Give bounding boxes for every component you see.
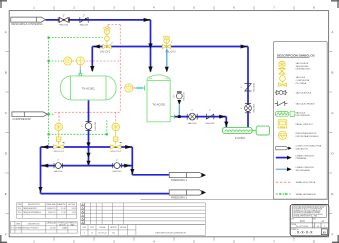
svg-text:APROB: APROB bbox=[110, 226, 117, 229]
svg-text:GDU-CV-1: GDU-CV-1 bbox=[54, 151, 65, 153]
svg-text:CAPACIDAD: CAPACIDAD bbox=[46, 221, 57, 224]
svg-text:DESCARGA CISTERNA: DESCARGA CISTERNA bbox=[11, 22, 43, 26]
valve HA-0102 bbox=[54, 163, 63, 169]
valve HA-0103 bbox=[113, 163, 122, 169]
svg-text:2": 2" bbox=[116, 159, 118, 161]
svg-text:CAL-CV-2: CAL-CV-2 bbox=[100, 50, 111, 53]
corner mark top-right bbox=[331, 0, 339, 8]
tank TK-AC003 (vertical vessel) bbox=[147, 75, 170, 122]
svg-text:HA-0106: HA-0106 bbox=[188, 122, 197, 125]
corner mark top-left bbox=[0, 0, 7, 8]
legend: ball valve symbol bbox=[275, 91, 287, 95]
svg-text:SEÑAL ELECTRICA: SEÑAL ELECTRICA bbox=[296, 181, 316, 184]
svg-text:HA-0115: HA-0115 bbox=[80, 24, 89, 27]
svg-text:HA-0108: HA-0108 bbox=[253, 82, 256, 91]
title block paragraph bbox=[294, 206, 326, 218]
legend: piloted gate valve symbol bbox=[278, 76, 286, 87]
svg-text:HA-0104: HA-0104 bbox=[182, 92, 185, 101]
svg-text:DESCRIPCIÓN: DESCRIPCIÓN bbox=[28, 203, 41, 206]
primary line: supply header y165.6 bbox=[41, 165, 133, 167]
svg-text:DISCRETA ACCESIBLE: DISCRETA ACCESIBLE bbox=[296, 135, 320, 138]
legend: connector other location symbol bbox=[276, 147, 289, 150]
primary line: TK-AC002 bottom outlet bbox=[88, 100, 90, 166]
svg-text:ACN: ACN bbox=[300, 220, 305, 223]
pneumatic signal: green dashed network bbox=[49, 38, 107, 148]
connector flag FREIDORA 2 bbox=[169, 190, 203, 195]
instrument PI above TK-AC002 bbox=[64, 57, 72, 65]
svg-text:DIAMETRO: DIAMETRO bbox=[57, 203, 67, 206]
svg-text:COMPRESOR: COMPRESOR bbox=[12, 117, 30, 121]
svg-text:TK-AC002: TK-AC002 bbox=[82, 86, 95, 90]
svg-text:DESCRIPCIÓN DE LA REVISIÓN: DESCRIPCIÓN DE LA REVISIÓN bbox=[155, 232, 186, 235]
corner mark bottom-right bbox=[332, 235, 339, 243]
svg-text:24-OCT-2024: 24-OCT-2024 bbox=[296, 226, 309, 228]
primary line: top feed from cisterna bbox=[45, 20, 150, 72]
svg-text:ITEM: ITEM bbox=[16, 223, 21, 225]
legend: electric signal symbol bbox=[276, 181, 291, 183]
svg-text:1/2": 1/2" bbox=[174, 94, 176, 98]
svg-text:5,5 KW: 5,5 KW bbox=[50, 228, 56, 230]
legend: panel view PLC symbol bbox=[278, 120, 287, 128]
svg-text:HA-0103: HA-0103 bbox=[113, 170, 122, 173]
svg-text:JT: JT bbox=[91, 232, 93, 234]
valve HA-0101 on TK-AC002 outlet bbox=[85, 122, 92, 131]
svg-text:1,5 M: 1,5 M bbox=[72, 212, 77, 214]
right ruler ticks bbox=[329, 52, 333, 214]
svg-text:PROGRESIVA: PROGRESIVA bbox=[296, 114, 311, 117]
instrument stack HA-0104 at TK-AC003 outlet bbox=[176, 91, 182, 99]
primary line: left riser to freidora 2 bbox=[41, 147, 170, 194]
check valve HA-0108 on riser bbox=[245, 84, 252, 91]
svg-text:2": 2" bbox=[191, 110, 193, 112]
legend: secondary connection line symbol bbox=[276, 168, 288, 170]
svg-text:VALVULA BOLA: VALVULA BOLA bbox=[296, 92, 312, 95]
svg-text:P-AC001: P-AC001 bbox=[235, 137, 246, 140]
svg-text:TK-2: TK-2 bbox=[18, 212, 22, 214]
connector flag DESCARGA CISTERNA bbox=[11, 17, 46, 22]
legend: progressive pump symbol bbox=[275, 111, 294, 116]
corner mark bottom-left bbox=[0, 235, 7, 243]
legend: primary connection line symbol bbox=[276, 157, 288, 159]
svg-text:VALVULA DE: VALVULA DE bbox=[296, 62, 309, 65]
svg-text:2": 2" bbox=[209, 110, 211, 112]
pilot gate valve CAL-CV-1 bbox=[162, 36, 170, 49]
tank TK-AC002 (horizontal vessel) bbox=[60, 76, 116, 100]
arrow at top corner bbox=[144, 18, 151, 22]
secondary line: level instrument into TK-AC003 bbox=[133, 87, 137, 89]
svg-text:BOMBA DESPLAZ. POSITIVO: BOMBA DESPLAZ. POSITIVO bbox=[15, 227, 39, 230]
svg-text:INSTRUMENTACIÓN: INSTRUMENTACIÓN bbox=[296, 132, 317, 135]
svg-text:TANQUE INTERMEDIO: TANQUE INTERMEDIO bbox=[23, 211, 42, 214]
connector flag FREIDORA 1 bbox=[169, 173, 203, 178]
arrow into TK-AC003 top bbox=[148, 67, 152, 73]
svg-text:0: 0 bbox=[84, 232, 85, 234]
connector flag COMPRESOR bbox=[12, 112, 48, 117]
svg-text:2,000 LTS: 2,000 LTS bbox=[48, 212, 57, 214]
secondary line: CAL-CV-1 drop into TK-AC003 bbox=[166, 49, 168, 72]
svg-text:ALTURA: ALTURA bbox=[68, 203, 75, 206]
instrument LT at TK-AC003 bbox=[125, 84, 133, 92]
legend: safety diverting valve symbol bbox=[279, 61, 285, 74]
svg-text:A: A bbox=[331, 30, 333, 34]
svg-text:2": 2" bbox=[82, 125, 84, 127]
svg-text:PANEL VIEW PLC: PANEL VIEW PLC bbox=[296, 123, 314, 126]
svg-text:3,5 M: 3,5 M bbox=[72, 208, 77, 210]
svg-text:UBICACIÓN: UBICACIÓN bbox=[296, 147, 308, 150]
svg-text:CONECTOR LINEA OTRA: CONECTOR LINEA OTRA bbox=[296, 145, 322, 148]
equipment table (tanks) bbox=[17, 203, 77, 219]
svg-text:F: F bbox=[5, 233, 7, 237]
svg-text:VALVULA CHEQUE: VALVULA CHEQUE bbox=[296, 103, 316, 106]
legend: check valve symbol bbox=[275, 101, 288, 106]
electric signal: red dashed network bbox=[55, 25, 123, 123]
bottom ruler ticks bbox=[54, 237, 294, 241]
title block bbox=[290, 205, 329, 236]
svg-text:A: A bbox=[5, 30, 7, 34]
svg-text:COMPUERTA: COMPUERTA bbox=[296, 79, 310, 82]
svg-text:TANQUE ACEITE: TANQUE ACEITE bbox=[23, 207, 37, 210]
svg-text:DESVIADORA: DESVIADORA bbox=[296, 68, 311, 71]
svg-text:FECHA: FECHA bbox=[120, 226, 127, 229]
pneumatic junction dots bbox=[48, 37, 108, 136]
svg-text:GDU-CV-2: GDU-CV-2 bbox=[110, 151, 121, 153]
svg-text:P-1: P-1 bbox=[11, 228, 14, 230]
secondary line: instrument stack drop at TK-AC003 outlet bbox=[178, 105, 180, 117]
instrument LT above TK-AC002 bbox=[76, 57, 84, 65]
svg-text:HA-0105: HA-0105 bbox=[206, 122, 215, 125]
svg-text:6 BAR: 6 BAR bbox=[62, 227, 68, 230]
revision table bbox=[85, 203, 206, 225]
nozzle at TK-AC003 outlet bbox=[170, 115, 174, 119]
svg-text:10,000 LTS: 10,000 LTS bbox=[47, 208, 56, 210]
revision triangles column bbox=[81, 203, 85, 225]
svg-text:HA-0114: HA-0114 bbox=[60, 24, 69, 27]
svg-text:E: E bbox=[5, 192, 7, 196]
svg-text:CAPACIDAD: CAPACIDAD bbox=[46, 203, 57, 206]
check valve HA-0115 bbox=[80, 17, 88, 22]
svg-text:1,2 M: 1,2 M bbox=[61, 212, 66, 214]
diverting valve GDU-CV-2 bbox=[111, 123, 121, 149]
svg-text:PRIMARIA: PRIMARIA bbox=[296, 157, 307, 160]
equipment table (pumps) bbox=[11, 221, 78, 233]
valve HA-0106 on TK-AC003 outlet bbox=[187, 113, 197, 120]
left ruler letters bbox=[5, 30, 8, 237]
svg-text:DESCRIPCIÓN: DESCRIPCIÓN bbox=[28, 222, 41, 225]
secondary line: instrument stub into TK-AC002 top bbox=[79, 65, 81, 69]
svg-text:X-X-X-X: X-X-X-X bbox=[297, 231, 313, 235]
svg-text:PILOTADA: PILOTADA bbox=[296, 82, 307, 85]
svg-text:B: B bbox=[331, 71, 333, 75]
svg-text:HA-0102: HA-0102 bbox=[54, 170, 63, 173]
svg-text:FREIDORA 2: FREIDORA 2 bbox=[171, 196, 187, 200]
svg-text:HA-0109: HA-0109 bbox=[253, 103, 256, 112]
svg-text:VALVULA: VALVULA bbox=[296, 111, 306, 114]
svg-text:SEGURIDAD: SEGURIDAD bbox=[296, 65, 309, 68]
svg-text:2,5 M: 2,5 M bbox=[61, 208, 66, 210]
svg-text:FECHA: FECHA bbox=[99, 226, 106, 229]
svg-text:HA-0101: HA-0101 bbox=[94, 121, 97, 130]
svg-text:F: F bbox=[331, 233, 333, 237]
title band separator line bbox=[141, 198, 329, 200]
svg-text:DESCRIPCIÓN SIMBOLOS: DESCRIPCIÓN SIMBOLOS bbox=[277, 53, 315, 58]
primary line: TK-AC003 outlet to pump bbox=[175, 117, 227, 128]
svg-text:2": 2" bbox=[171, 42, 173, 44]
svg-text:TK-1: TK-1 bbox=[18, 208, 22, 210]
check valve HA-0105 bbox=[206, 114, 213, 120]
primary line: recirculation header y147 bbox=[41, 147, 170, 175]
svg-text:2": 2" bbox=[57, 159, 59, 161]
ball valve HA-0114 bbox=[58, 17, 69, 22]
pump P-AC001 (progressive cavity) bbox=[222, 126, 269, 135]
revision header band bbox=[81, 225, 206, 236]
valve HA-0109 on riser bbox=[245, 103, 252, 112]
legend box bbox=[273, 42, 327, 200]
primary line: header to both tanks bbox=[92, 47, 248, 128]
svg-text:XX: XX bbox=[323, 230, 327, 234]
svg-text:LINEA CONEXIÓN: LINEA CONEXIÓN bbox=[296, 166, 315, 169]
svg-text:E: E bbox=[331, 192, 333, 196]
arrow into TK-AC002 top bbox=[90, 66, 94, 72]
top ruler ticks bbox=[54, 6, 294, 10]
svg-text:SECUNDARIA: SECUNDARIA bbox=[296, 169, 311, 172]
svg-text:SEÑAL NEUMATICA: SEÑAL NEUMATICA bbox=[296, 193, 317, 196]
svg-text:CAL-CV-1: CAL-CV-1 bbox=[165, 50, 176, 53]
bottom ruler numbers bbox=[33, 240, 315, 243]
svg-text:2": 2" bbox=[241, 107, 243, 109]
svg-text:FREIDORA 1: FREIDORA 1 bbox=[171, 178, 187, 182]
svg-text:LINEA CONEXIÓN: LINEA CONEXIÓN bbox=[296, 154, 315, 157]
svg-text:2": 2" bbox=[241, 86, 243, 88]
svg-text:ITEM: ITEM bbox=[17, 204, 22, 206]
svg-text:2": 2" bbox=[111, 43, 113, 45]
arrow before right corner of header bbox=[241, 45, 248, 49]
left ruler ticks bbox=[5, 52, 9, 214]
junction arrow on vertical at header crossing bbox=[148, 43, 152, 48]
svg-text:2": 2" bbox=[63, 15, 65, 17]
svg-text:MOTOR: MOTOR bbox=[59, 224, 66, 226]
diverting valve GDU-CV-1 bbox=[53, 123, 63, 149]
svg-text:B: B bbox=[5, 71, 7, 75]
svg-text:VALVULA: VALVULA bbox=[296, 76, 306, 79]
svg-text:TK-AC003: TK-AC003 bbox=[152, 102, 165, 106]
arrow at left corner of header bbox=[93, 45, 100, 49]
right ruler letters bbox=[331, 30, 334, 237]
svg-text:24-OCT-24: 24-OCT-24 bbox=[98, 232, 106, 234]
legend: pneumatic signal symbol bbox=[276, 193, 291, 195]
svg-text:2": 2" bbox=[83, 15, 85, 17]
pilot gate valve CAL-CV-2 bbox=[103, 27, 111, 49]
legend: discrete instrumentation symbol bbox=[278, 131, 286, 139]
top ruler numbers bbox=[33, 5, 315, 9]
